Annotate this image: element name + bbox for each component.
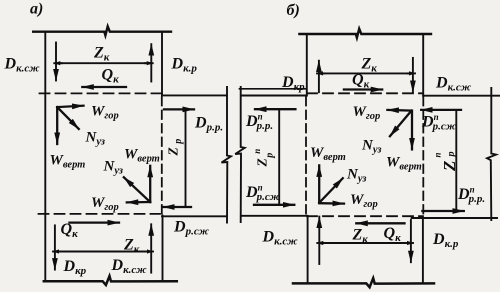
left beam top edge fig b — [240, 88, 307, 90]
label W_gor lower fig b — [350, 192, 378, 210]
dimension Z_k top fig a — [57, 62, 150, 64]
label N_uz upper fig b — [361, 138, 381, 156]
svg-text:Dр.р.: Dр.р. — [194, 115, 223, 134]
label Z_k bottom fig a — [123, 237, 140, 256]
label Z_k top fig a — [93, 45, 110, 64]
top chord line fig b with break — [299, 29, 431, 38]
svg-text:Wверт: Wверт — [310, 145, 346, 163]
svg-text:Dр.сж: Dр.сж — [173, 219, 210, 238]
label W_gor upper fig b — [353, 104, 381, 122]
svg-text:Zк: Zк — [123, 237, 140, 256]
svg-text:Dкр: Dкр — [63, 258, 87, 277]
svg-text:Dк.сж: Dк.сж — [435, 75, 472, 94]
label D^p r.szh fig b — [245, 183, 281, 204]
force arrow D k.szh bottom-left fig b — [318, 217, 320, 264]
svg-text:Wгор: Wгор — [91, 104, 119, 122]
right beam tension arrow D^p r.r fig b — [422, 210, 463, 212]
label Q_k top fig b — [352, 72, 370, 91]
svg-text:Z: Z — [440, 161, 459, 172]
svg-text:Dпр.сж: Dпр.сж — [421, 112, 457, 133]
beam bottom edge fig a — [162, 215, 227, 217]
svg-text:Dк.р: Dк.р — [432, 231, 459, 250]
right beam top edge fig b — [423, 95, 500, 97]
column left edge fig b joint dashed — [305, 97, 307, 215]
lower joint group fig b: W_vert arrow — [318, 165, 320, 202]
svg-text:п: п — [252, 149, 262, 154]
column left edge fig b lower solid — [307, 216, 309, 284]
column right edge fig b upper solid — [422, 34, 424, 96]
label Z^p rotated left beam fig b — [252, 149, 276, 168]
svg-text:Dкр: Dкр — [281, 74, 305, 93]
lever arm Z^p connector left beam fig b — [278, 109, 280, 205]
lever arm Z_r connector fig a — [185, 109, 187, 207]
label W_vert upper fig a — [50, 153, 86, 171]
svg-text:р: р — [265, 153, 276, 159]
force arrow D k.r bottom-right fig b — [410, 220, 412, 262]
label D^p r.r fig b — [245, 112, 273, 133]
force arrow D k.szh top-left — [55, 43, 57, 81]
svg-text:Zк: Zк — [93, 45, 110, 64]
label Z_k top fig b — [361, 56, 378, 75]
upper joint group fig b: W_vert arrow — [411, 111, 413, 150]
force arrow D kr top-left fig b — [318, 61, 320, 92]
label D k.szh bottom-right fig a — [111, 257, 148, 276]
dimension Z_k bottom fig b — [320, 242, 411, 244]
svg-text:Qк: Qк — [102, 67, 120, 86]
left beam tension arrow D^p r.r fig b — [255, 108, 295, 110]
svg-text:а): а) — [30, 1, 43, 18]
joint top boundary over left beam fig b — [241, 95, 307, 97]
label W_vert upper fig b — [386, 155, 422, 173]
figure label a) — [30, 1, 43, 18]
svg-text:р: р — [446, 151, 457, 157]
label N_uz lower fig b — [346, 167, 366, 185]
label D kr top-left fig b — [281, 74, 305, 93]
column right edge fig a lower solid — [162, 216, 164, 282]
column right edge fig b joint dashed — [422, 97, 424, 217]
right beam compression arrow D^p r.szh fig b — [421, 109, 461, 111]
label D k.szh bottom-left fig b — [262, 229, 299, 248]
svg-text:Dк.сж: Dк.сж — [262, 229, 299, 248]
label Q_k top fig a — [102, 67, 120, 86]
upper joint group fig a: N_uz arrow — [57, 107, 79, 129]
lower joint group fig b: N_uz arrow — [319, 178, 343, 203]
svg-text:Wверт: Wверт — [124, 147, 160, 165]
svg-text:Dпр.сж: Dпр.сж — [245, 183, 281, 204]
upper joint group fig b: W_gor arrow — [387, 109, 411, 112]
beam compression arrow D r.szh fig a — [163, 206, 191, 208]
dimension Z_k top fig b — [320, 72, 413, 74]
shear arrow Q_k bottom fig a — [70, 221, 120, 223]
bottom chord line fig a with break — [44, 276, 177, 285]
svg-text:Nуз: Nуз — [103, 159, 123, 177]
column left edge fig a — [44, 32, 46, 281]
label D k.szh top-left — [4, 56, 41, 75]
label D kr bottom-left — [63, 258, 87, 277]
svg-text:Wгор: Wгор — [353, 104, 381, 122]
label D k.r bottom-right fig b — [432, 231, 459, 250]
right beam bottom edge fig b — [412, 217, 497, 219]
svg-text:Dк.сж: Dк.сж — [111, 257, 148, 276]
force arrow D k.szh top-right fig b — [412, 58, 414, 92]
svg-text:Nуз: Nуз — [361, 138, 381, 156]
label D r.r fig a — [194, 115, 223, 134]
label D k.r top-right — [171, 56, 198, 75]
joint top dashed boundary fig b — [307, 92, 423, 94]
left beam bottom edge fig b — [241, 215, 307, 217]
svg-text:Zк: Zк — [352, 227, 369, 246]
label W_vert lower fig a — [124, 147, 160, 165]
svg-text:Wгор: Wгор — [91, 195, 119, 213]
label W_vert lower fig b — [310, 145, 346, 163]
label W_gor upper fig a — [91, 104, 119, 122]
label Z_k bottom fig b — [352, 227, 369, 246]
column right edge fig a upper solid — [161, 32, 163, 96]
svg-text:Nуз: Nуз — [346, 167, 366, 185]
svg-text:Qк: Qк — [384, 225, 402, 244]
svg-text:Dк.р: Dк.р — [171, 56, 198, 75]
column right edge fig a joint dashed — [161, 97, 163, 215]
lower joint group fig b: W_gor arrow — [319, 202, 344, 205]
upper joint group fig a: W_vert arrow — [56, 107, 58, 144]
force arrow D k.szh bottom-right — [150, 224, 152, 272]
svg-text:б): б) — [287, 2, 300, 19]
figure label b) — [287, 2, 300, 19]
joint bottom dashed boundary fig a — [39, 213, 161, 215]
label N_uz upper fig a — [85, 130, 105, 148]
svg-text:Wгор: Wгор — [350, 192, 378, 210]
shear arrow Q_k bottom fig b — [356, 222, 404, 224]
left beam break line fig b — [235, 87, 245, 222]
svg-text:Dпр.р.: Dпр.р. — [245, 112, 273, 133]
force arrow D k.r top-right — [150, 44, 152, 81]
svg-text:Wверт: Wверт — [50, 153, 86, 171]
svg-text:Z: Z — [166, 147, 181, 156]
shear arrow Q_k top fig a — [82, 86, 126, 88]
label N_uz lower fig a — [103, 159, 123, 177]
beam break line fig a — [222, 87, 232, 223]
lower joint group fig a: W_gor arrow — [127, 201, 150, 204]
joint bottom dashed boundary fig b — [307, 215, 423, 217]
lower joint group fig a: W_vert arrow — [149, 166, 151, 202]
upper joint group fig b: N_uz arrow — [390, 111, 412, 137]
joint top dashed boundary fig a — [40, 92, 162, 94]
label Z_r rotated fig a — [166, 139, 184, 157]
upper joint group fig a: W_gor arrow — [57, 106, 83, 107]
beam tension arrow D r.r fig a — [164, 108, 194, 110]
dimension Z_k bottom fig a — [55, 251, 150, 253]
top chord line fig a with break — [33, 26, 171, 35]
left beam compression arrow D^p r.szh fig b — [254, 204, 294, 206]
shear arrow Q_k top fig b — [344, 88, 382, 90]
beam top edge fig a — [162, 94, 227, 96]
label W_gor lower fig a — [91, 195, 119, 213]
bottom chord line fig b with break — [293, 278, 434, 287]
label Q_k bottom fig b — [384, 225, 402, 244]
svg-text:Wверт: Wверт — [386, 155, 422, 173]
svg-text:Dпр.р.: Dпр.р. — [457, 185, 485, 206]
svg-text:Dк.сж: Dк.сж — [4, 56, 41, 75]
force arrow D kr bottom-left — [54, 225, 56, 269]
label D k.szh top-right fig b — [435, 75, 472, 94]
lower joint group fig a: N_uz arrow — [124, 177, 150, 202]
column right edge fig b lower solid — [422, 218, 424, 284]
svg-text:р: р — [173, 139, 184, 145]
svg-text:Nуз: Nуз — [85, 130, 105, 148]
right beam break line fig b — [487, 88, 496, 220]
column left edge fig b upper solid — [306, 34, 308, 96]
label Q_k bottom fig a — [61, 221, 79, 240]
svg-text:Z: Z — [254, 158, 269, 167]
svg-text:Qк: Qк — [61, 221, 79, 240]
label Z^p rotated right beam fig b — [432, 151, 459, 172]
lever arm Z^p connector right beam fig b — [455, 110, 457, 211]
label D r.szh fig a — [173, 219, 210, 238]
svg-text:п: п — [432, 152, 442, 157]
label D^p r.szh right fig b — [421, 112, 457, 133]
label D^p r.r right fig b — [457, 185, 485, 206]
